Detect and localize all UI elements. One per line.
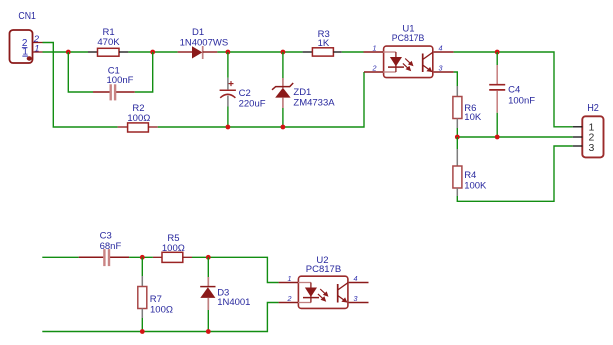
H2 pin 3 stub: [573, 145, 583, 147]
wire bottom row: [42, 303, 278, 332]
capacitor C4: [489, 52, 535, 137]
diode D1: [178, 27, 229, 59]
svg-text:1: 1: [34, 43, 39, 54]
H2 pin 1 stub: [573, 126, 583, 128]
resistor R2: [118, 103, 158, 132]
svg-text:3: 3: [354, 294, 358, 303]
wire R4 bottom loop to H2 pin3: [457, 146, 573, 201]
capacitor C1: [93, 65, 135, 100]
svg-text:C4: C4: [508, 84, 520, 95]
resistor R4: [453, 149, 487, 196]
wire C1 branch right: [135, 52, 153, 92]
CN1 pin 2 stub: [33, 42, 43, 44]
svg-text:1: 1: [288, 274, 292, 283]
wire CN1 pin1 to node A: [43, 51, 89, 53]
resistor R1: [88, 27, 128, 56]
svg-text:CN1: CN1: [18, 10, 36, 22]
optocoupler U2: [298, 255, 348, 309]
svg-text:H2: H2: [587, 102, 599, 114]
svg-text:1K: 1K: [318, 38, 330, 49]
diode D3: [200, 257, 250, 331]
U1 phototransistor: [423, 52, 433, 72]
node I junction: [495, 135, 500, 140]
svg-text:100Ω: 100Ω: [127, 113, 150, 124]
node H junction: [455, 135, 460, 140]
wire R7 to bottom row: [141, 318, 143, 332]
U2 pin 3 stub: [349, 302, 369, 304]
U1 pin 2 stub: [364, 71, 383, 73]
svg-text:1N4007WS: 1N4007WS: [180, 37, 229, 48]
svg-text:PC817B: PC817B: [392, 33, 425, 44]
wire mid row to H2 pin2: [457, 136, 573, 138]
wire D1 to R3: [217, 51, 302, 53]
wire C1 branch left: [68, 52, 93, 92]
resistor R3: [303, 29, 342, 56]
wire R2 row bottom: [158, 72, 364, 127]
svg-text:2: 2: [372, 64, 377, 73]
svg-text:4: 4: [354, 274, 358, 283]
svg-text:R4: R4: [464, 170, 476, 181]
svg-text:220uF: 220uF: [239, 98, 266, 109]
U2 phototransistor: [338, 283, 348, 303]
U2 internal LED: [298, 283, 319, 303]
wire U1 pin3 to R6: [454, 72, 458, 86]
svg-text:100Ω: 100Ω: [150, 304, 173, 315]
node G junction: [495, 50, 500, 55]
node L junction: [140, 329, 145, 334]
U2 pin 1 stub: [279, 282, 298, 284]
wire R5 to U2 pin1 corner: [192, 257, 279, 282]
node A junction: [66, 50, 71, 55]
svg-text:1N4001: 1N4001: [217, 297, 250, 308]
svg-text:4: 4: [439, 44, 443, 53]
svg-text:PC817B: PC817B: [306, 264, 341, 275]
U1 pin 1 stub: [364, 51, 384, 53]
node J junction: [140, 255, 145, 260]
wire C3 to R5: [129, 256, 153, 258]
CN1 pin 1 stub: [33, 51, 43, 53]
svg-text:1: 1: [373, 44, 377, 53]
svg-text:D1: D1: [192, 27, 204, 38]
H2 pin 2 stub: [573, 136, 583, 138]
svg-text:ZM4733A: ZM4733A: [293, 98, 335, 109]
U1 light arrows: [403, 59, 414, 72]
wire R7 branch: [141, 257, 143, 276]
wire R3 to U1 pin1: [342, 51, 364, 53]
wire U1 pin4 to corner: [454, 52, 573, 127]
wire R6 to mid row: [456, 128, 458, 137]
svg-text:R7: R7: [150, 294, 162, 305]
U1 pin 3 stub: [434, 71, 454, 73]
header H2: [582, 102, 603, 157]
node F junction: [281, 125, 286, 130]
svg-text:2: 2: [287, 294, 292, 303]
zener diode ZD1: [272, 52, 335, 127]
svg-text:100K: 100K: [464, 180, 487, 191]
wire CN1 pin2 to R2 row: [43, 43, 118, 128]
node B junction: [150, 50, 155, 55]
svg-text:68nF: 68nF: [100, 241, 122, 252]
optocoupler U1: [384, 24, 433, 78]
U1 internal LED: [383, 52, 404, 72]
node D junction: [281, 50, 286, 55]
svg-text:10K: 10K: [464, 112, 482, 123]
node E junction: [226, 125, 231, 130]
svg-text:3: 3: [439, 64, 443, 73]
svg-text:3: 3: [589, 142, 595, 154]
U2 pin 4 stub: [349, 282, 369, 284]
svg-text:100Ω: 100Ω: [162, 243, 185, 254]
wire bottom top row left: [42, 256, 78, 258]
wire R1 to node B: [128, 51, 177, 53]
connector CN1: [10, 10, 37, 63]
wire mid row down to R4: [456, 137, 458, 149]
node M junction: [206, 329, 211, 334]
resistor R6: [453, 86, 482, 128]
capacitor C2: [220, 52, 266, 127]
U2 light arrows: [318, 289, 329, 302]
svg-text:100nF: 100nF: [107, 75, 134, 86]
U2 pin 2 stub: [279, 302, 298, 304]
resistor R7: [138, 276, 173, 318]
node K junction: [206, 255, 211, 260]
U1 pin 4 stub: [434, 51, 454, 53]
svg-text:1: 1: [22, 47, 28, 58]
capacitor C3: [79, 231, 129, 267]
svg-text:100nF: 100nF: [508, 95, 535, 106]
resistor R5: [153, 233, 192, 262]
node C junction: [226, 50, 231, 55]
svg-text:470K: 470K: [97, 37, 120, 48]
